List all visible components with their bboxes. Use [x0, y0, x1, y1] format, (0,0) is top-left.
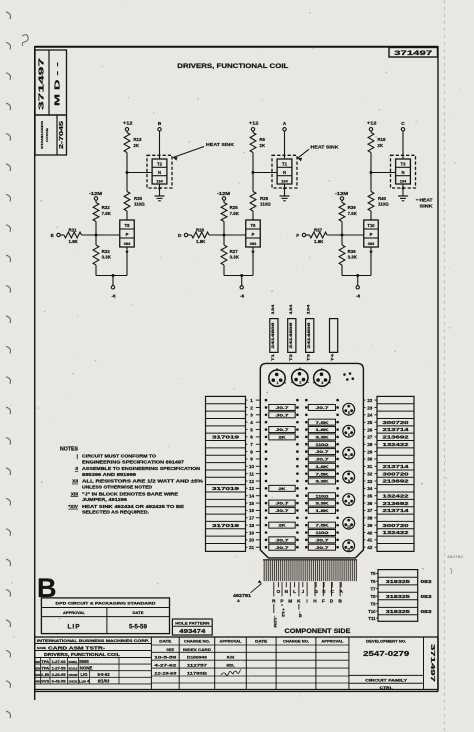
svg-text:K: K: [297, 598, 301, 604]
bottom rail (C driver): [342, 275, 371, 277]
svg-text:N: N: [401, 170, 404, 175]
drawing number box 371497: [389, 48, 438, 58]
svg-text:SCALE: SCALE: [69, 666, 78, 670]
svg-text:2-7045: 2-7045: [59, 121, 65, 149]
svg-text:083: 083: [250, 241, 257, 246]
svg-text:CHANGE NO.: CHANGE NO.: [283, 639, 309, 643]
svg-text:SMS: SMS: [79, 659, 89, 664]
notes: [60, 447, 203, 515]
svg-text:28: 28: [367, 442, 373, 447]
svg-text:29: 29: [367, 449, 373, 454]
svg-text:-6: -6: [111, 293, 116, 298]
emitter wire of T6 to rail: [251, 247, 254, 276]
svg-text:DRAW: DRAW: [69, 673, 78, 677]
svg-text:SEE: SEE: [166, 648, 174, 652]
svg-text:27: 27: [367, 435, 373, 440]
wire R25 to base node: [223, 222, 225, 236]
svg-text:1: 1: [277, 381, 279, 385]
svg-text:R31: R31: [68, 227, 77, 232]
package T4 (2414806 power transistor): [330, 319, 338, 361]
emitter wire + ground (T3): [398, 184, 408, 201]
emitter wire + ground (T2): [155, 184, 165, 201]
resistor R37 1.8K (input): [306, 227, 327, 243]
svg-text:DATE: DATE: [159, 639, 172, 643]
svg-text:112757: 112757: [187, 664, 207, 668]
node junction (B driver): [126, 171, 129, 174]
card hole pads (right column): [305, 399, 339, 549]
net +12 on contact P: [281, 604, 285, 617]
transistor T5 position: [343, 403, 355, 415]
svg-text:1.8K: 1.8K: [314, 239, 324, 244]
contact P: [280, 582, 284, 604]
svg-text:300720: 300720: [383, 471, 410, 476]
svg-text:1-27-59: 1-27-59: [52, 666, 66, 670]
resistor 7.5K (right col row 11): [308, 471, 335, 477]
svg-text:HEAT SINK 492434 OR 492435 TO: HEAT SINK 492434 OR 492435 TO BE: [82, 504, 184, 509]
svg-text:40: 40: [367, 530, 373, 535]
svg-text:3.3K: 3.3K: [348, 255, 358, 260]
svg-text:134: 134: [400, 178, 407, 183]
svg-text:8: 8: [250, 449, 253, 454]
svg-text:INTERNATIONAL BUSINESS MACHINE: INTERNATIONAL BUSINESS MACHINES CORP.: [37, 639, 149, 643]
svg-text:31: 31: [367, 464, 373, 469]
svg-text:A: A: [283, 121, 287, 127]
resistor R13 2K: [124, 133, 142, 153]
svg-text:9: 9: [250, 457, 253, 462]
edge connector contacts: [263, 560, 357, 582]
node junction (C driver): [370, 171, 373, 174]
transistor socket 3: [313, 368, 331, 386]
left terminal strip (pins 1-21): [206, 396, 246, 551]
svg-text:22: 22: [367, 398, 373, 403]
svg-text:P: P: [126, 232, 129, 237]
svg-text:18: 18: [249, 523, 255, 528]
resistor R40 110&#937;: [368, 192, 389, 212]
svg-text:2: 2: [299, 381, 301, 385]
svg-text:O: O: [277, 589, 281, 595]
svg-text:33: 33: [367, 479, 373, 484]
svg-text:213714: 213714: [383, 464, 410, 469]
svg-text:APPROVAL: APPROVAL: [63, 611, 86, 615]
svg-text:1.8K: 1.8K: [316, 427, 329, 432]
resistor 3.3K (right col row 12): [308, 478, 335, 484]
svg-text:132422: 132422: [383, 442, 410, 447]
terminal +12 (C driver): [367, 121, 377, 131]
svg-text:R32: R32: [102, 205, 111, 210]
svg-text:F: F: [322, 598, 325, 604]
svg-text:NOTES: NOTES: [60, 447, 79, 453]
transistor T7 position: [343, 447, 355, 459]
svg-text:R36: R36: [348, 249, 357, 254]
svg-text:41: 41: [367, 538, 373, 543]
emitter wire of T10 to rail: [369, 247, 372, 276]
svg-text:APPROVAL: APPROVAL: [220, 639, 242, 643]
terminal -12M (A driver): [217, 191, 230, 200]
wire R26 to T6 base: [209, 234, 246, 236]
wire -12M to R39: [341, 200, 343, 202]
svg-text:DETAIL: DETAIL: [35, 666, 41, 670]
resistor R6 2K: [250, 133, 266, 153]
svg-text:34: 34: [367, 486, 373, 491]
svg-text:2K: 2K: [133, 143, 139, 148]
svg-text:R28: R28: [260, 196, 269, 201]
wire node to transistor T1 base: [253, 172, 277, 174]
svg-text:30: 30: [367, 457, 373, 462]
standards code block: [35, 50, 67, 155]
svg-text:J0.7: J0.7: [316, 449, 330, 454]
svg-text:11: 11: [347, 548, 351, 552]
svg-text:M: M: [288, 598, 292, 604]
wire node to transistor T2 base: [127, 172, 152, 174]
svg-text:ALL RESISTORS ARE 1/2 WATT AND: ALL RESISTORS ARE 1/2 WATT AND ±5%: [82, 479, 203, 484]
heat sink label (T2): [173, 142, 235, 161]
resistor R35 110&#937;: [124, 192, 145, 212]
jumper J0.7 (left col row 20): [269, 537, 295, 543]
contact C: [330, 582, 334, 595]
svg-text:R39: R39: [348, 205, 357, 210]
terminal +12 (B driver): [123, 121, 133, 131]
svg-text:7.5K: 7.5K: [230, 211, 240, 216]
wire C to T3 collector: [402, 131, 404, 159]
base node junction (C driver): [341, 234, 344, 237]
svg-text:3.3K: 3.3K: [316, 434, 329, 439]
svg-text:1-27-60: 1-27-60: [52, 660, 66, 664]
svg-text:8: 8: [348, 479, 350, 483]
svg-text:T8: T8: [125, 223, 131, 228]
wire R33 to rail: [95, 265, 97, 276]
svg-text:213692: 213692: [383, 479, 410, 484]
svg-text:35: 35: [367, 494, 373, 499]
svg-text:CARD ASM TSTR-: CARD ASM TSTR-: [48, 645, 106, 650]
svg-text:DPD CIRCUIT & PACKAGING STANDA: DPD CIRCUIT & PACKAGING STANDARD: [56, 602, 157, 606]
contact A: [339, 582, 343, 595]
jumper J0.7 (right col row 9): [308, 456, 335, 462]
resistor R32 7.5K: [93, 203, 112, 222]
jumper J0.7 (left col row 16): [269, 507, 295, 513]
jumper J0.7 (left col row 3): [269, 412, 295, 418]
contact J: [301, 582, 304, 595]
svg-text:T10: T10: [367, 223, 375, 228]
svg-text:3: 3: [250, 413, 253, 418]
svg-text:CIRCUIT FAMILY: CIRCUIT FAMILY: [365, 677, 407, 682]
svg-text:134: 134: [307, 303, 311, 314]
jumper J0.7 (right col row 20): [308, 537, 335, 543]
svg-text:5-5-59: 5-5-59: [129, 624, 147, 631]
svg-text:9: 9: [348, 502, 350, 506]
wire +12 to R13: [126, 131, 128, 133]
resistor 1.8K (right col row 16): [308, 507, 335, 513]
package T3 (2414806 power transistor): [306, 303, 314, 361]
svg-text:TPA: TPA: [41, 660, 50, 664]
svg-text:R25: R25: [230, 205, 239, 210]
emitter wire + ground (T1): [280, 184, 290, 201]
svg-text:300720: 300720: [383, 523, 410, 528]
svg-text:213714: 213714: [383, 508, 410, 513]
svg-text:213714: 213714: [383, 427, 410, 432]
jumper J0.7 (left col row 2): [269, 404, 295, 410]
wire B to T2 collector: [159, 131, 161, 159]
svg-text:7: 7: [250, 442, 253, 447]
contact O: [277, 582, 281, 595]
svg-text:J0.7: J0.7: [316, 457, 330, 462]
contact D: [330, 582, 334, 604]
svg-text:TPA: TPA: [41, 666, 50, 670]
contact R: [272, 582, 276, 604]
svg-text:T9: T9: [370, 601, 376, 606]
svg-text:493474: 493474: [179, 629, 205, 635]
resistor 1.8K (right col row 10): [308, 463, 335, 469]
svg-text:T11: T11: [368, 616, 376, 621]
resistor 1.8K (right col row 5): [308, 427, 335, 433]
svg-text:RJH: RJH: [227, 656, 235, 660]
svg-text:COMPONENT SIDE: COMPONENT SIDE: [285, 628, 352, 635]
svg-text:T10: T10: [368, 609, 376, 614]
svg-text:F: F: [296, 233, 299, 239]
terminal F (input): [296, 233, 305, 239]
svg-text:HEAT SINK: HEAT SINK: [206, 142, 235, 147]
svg-text:J0.7: J0.7: [316, 545, 330, 550]
bottom rail (A driver): [224, 275, 253, 277]
jumper J0.7 (right col row 8): [308, 449, 335, 455]
wire node to transistor T3 base: [371, 172, 396, 174]
jumper J0.7 (left col row 15): [269, 500, 295, 506]
svg-text:CHECK: CHECK: [35, 673, 40, 677]
svg-text:-12M: -12M: [217, 191, 230, 196]
transistor T6 (P 083): [246, 220, 261, 247]
transistor T9 position: [343, 494, 355, 506]
svg-text:P: P: [252, 232, 255, 237]
contact I: [306, 582, 308, 604]
heat sink label (T1): [298, 145, 340, 162]
svg-text:J0.7: J0.7: [276, 545, 290, 550]
contact B: [338, 582, 342, 604]
wire R37 to T10 base: [327, 234, 364, 236]
svg-text:37: 37: [367, 508, 373, 513]
socket position 4 (unused pads): [343, 372, 354, 381]
svg-text:21: 21: [249, 545, 255, 550]
bottom rail (B driver): [96, 275, 127, 277]
svg-text:2: 2: [250, 405, 253, 410]
transistor T6 position: [343, 425, 355, 437]
wire R39 to base node: [341, 222, 343, 236]
svg-text:CODE: CODE: [45, 128, 49, 142]
svg-text:T2: T2: [157, 162, 163, 167]
resistor 2K (left col row 18): [269, 522, 295, 528]
svg-text:2547-0279: 2547-0279: [363, 649, 409, 658]
svg-text:N: N: [285, 589, 289, 595]
transistor T2 (N 134): [152, 159, 167, 184]
svg-text:MDL: MDL: [226, 664, 235, 668]
svg-text:3.3K: 3.3K: [316, 501, 329, 506]
DPD standards approval box: [41, 598, 169, 634]
svg-text:+12: +12: [249, 121, 259, 126]
svg-text:ASSEMBLE TO ENGINEERING SPECIF: ASSEMBLE TO ENGINEERING SPECIFICATION: [82, 466, 200, 471]
svg-text:D: D: [178, 233, 182, 239]
svg-text:J0.7: J0.7: [276, 412, 290, 417]
wire R35 to T8: [126, 211, 128, 220]
svg-text:J0.7: J0.7: [276, 537, 290, 542]
svg-text:T8: T8: [370, 594, 376, 599]
svg-text:SINK: SINK: [420, 203, 434, 208]
svg-text:T6: T6: [251, 223, 257, 228]
svg-text:D106943: D106943: [187, 656, 207, 660]
svg-text:N: N: [283, 170, 286, 175]
svg-text:R40: R40: [378, 196, 387, 201]
transistor T8 (P 083): [120, 220, 135, 247]
svg-text:3.3K: 3.3K: [102, 255, 112, 260]
svg-text:134: 134: [156, 178, 163, 183]
svg-text:MODEL: MODEL: [69, 660, 78, 664]
svg-text:1: 1: [250, 398, 253, 403]
resistor 3.3K (right col row 15): [308, 500, 335, 506]
svg-text:J0.7: J0.7: [316, 537, 330, 542]
transistor T8 position: [343, 471, 355, 483]
svg-text:2414806: 2414806: [271, 322, 275, 348]
svg-text:132422: 132422: [383, 493, 410, 498]
svg-text:17: 17: [249, 516, 255, 521]
svg-text:-6: -6: [240, 293, 245, 298]
svg-text:9/1/63: 9/1/63: [98, 679, 110, 684]
svg-text:JUMPER, 491296: JUMPER, 491296: [82, 497, 128, 502]
svg-text:6: 6: [348, 433, 350, 437]
svg-text:110Ω: 110Ω: [260, 201, 271, 206]
svg-text:12: 12: [249, 479, 255, 484]
svg-text:B: B: [158, 121, 162, 127]
resistor 110&#937; (right col row 14): [308, 493, 335, 499]
svg-text:J0.7: J0.7: [276, 508, 290, 513]
resistor 110&#937; (right col row 7): [308, 441, 335, 447]
transistor T1 (N 134): [277, 159, 292, 184]
svg-text:492781: 492781: [233, 593, 252, 598]
svg-text:2K: 2K: [259, 143, 265, 148]
svg-text:XIII: XIII: [71, 491, 79, 497]
svg-text:38: 38: [367, 516, 373, 521]
rail junction (B driver): [112, 274, 115, 277]
svg-text:1.8K: 1.8K: [69, 239, 79, 244]
heat sink dashed outline (T1): [272, 155, 297, 188]
wire node to R28: [252, 173, 254, 192]
terminal -6: [111, 276, 116, 299]
connector part number 492781: [233, 580, 262, 603]
resistor R27 3.3K: [221, 235, 240, 265]
svg-text:L: L: [293, 589, 296, 595]
wire node to R40: [370, 173, 372, 192]
svg-text:371497: 371497: [37, 58, 46, 110]
svg-text:25: 25: [367, 420, 373, 425]
svg-text:STANDARDS: STANDARDS: [40, 121, 44, 149]
emitter wire of T8 to rail: [125, 247, 128, 276]
wire R40 to T10: [370, 211, 372, 220]
jumper J0.7 (left col row 5): [269, 427, 295, 433]
terminal -6: [356, 276, 361, 299]
svg-text:213692: 213692: [383, 501, 410, 506]
net -6 on contact K: [298, 604, 302, 618]
svg-text:-12M: -12M: [273, 616, 277, 628]
node junction (A driver): [252, 171, 255, 174]
svg-text:-6: -6: [356, 293, 361, 298]
rail junction (C driver): [356, 274, 359, 277]
parts table T5-T11 (318325): [368, 570, 432, 622]
svg-text:134: 134: [281, 178, 288, 183]
wire node to R35: [126, 173, 128, 192]
svg-text:CHANGE NO.: CHANGE NO.: [184, 639, 210, 643]
wire R6 to node: [252, 153, 254, 173]
contact K: [297, 582, 301, 604]
heat sink dashed outline (T2): [147, 155, 172, 188]
resistor 2K (left col row 6): [269, 434, 295, 440]
svg-text:083: 083: [421, 609, 433, 614]
svg-text:7.5K: 7.5K: [348, 211, 358, 216]
svg-text:5: 5: [250, 427, 253, 432]
resistor 2K (left col row 13): [269, 485, 295, 491]
base node junction (A driver): [223, 234, 226, 237]
svg-text:P: P: [370, 232, 373, 237]
contact M: [288, 582, 292, 604]
svg-text:R37: R37: [314, 227, 323, 232]
terminal -12M (C driver): [335, 191, 348, 200]
svg-text:371497: 371497: [429, 644, 435, 682]
svg-text:1.8K: 1.8K: [316, 508, 329, 513]
svg-text:895396 AND 891999: 895396 AND 891999: [82, 472, 137, 477]
svg-text:+12: +12: [123, 121, 133, 126]
svg-text:-12M: -12M: [89, 191, 102, 196]
svg-text:SVS: SVS: [41, 680, 50, 684]
terminal B (output): [158, 121, 162, 131]
resistor R33 3.3K: [93, 235, 112, 265]
svg-text:10: 10: [347, 525, 351, 529]
svg-text:NONE: NONE: [80, 665, 93, 670]
svg-text:7.5K: 7.5K: [316, 523, 329, 528]
svg-text:-6: -6: [298, 612, 302, 618]
jumper J0.7 (right col row 2): [308, 404, 335, 410]
wire -12M to R25: [223, 200, 225, 202]
wire R27 to rail: [223, 265, 225, 276]
wire R31 to T8 base: [82, 234, 120, 236]
svg-text:T1: T1: [282, 162, 288, 167]
contact G: [314, 582, 318, 595]
wire A to T1 collector: [284, 131, 286, 159]
contact E: [322, 582, 326, 595]
wire +12 to R6: [252, 131, 254, 133]
svg-text:317019: 317019: [212, 486, 240, 491]
resistor R28 110&#937;: [250, 192, 271, 212]
svg-text:M D - -: M D - -: [55, 61, 62, 106]
terminal D (input): [178, 233, 188, 239]
svg-text:134: 134: [289, 303, 293, 314]
resistor 110&#937; (right col row 19): [308, 529, 335, 535]
svg-text:INDEX CARD: INDEX CARD: [183, 648, 211, 652]
svg-text:11: 11: [249, 471, 254, 476]
resistor 3.3K (right col row 6): [308, 434, 335, 440]
svg-text:J0.7: J0.7: [276, 427, 290, 432]
transistor T10 (P 083): [364, 220, 379, 247]
svg-text:J0.7: J0.7: [316, 405, 330, 410]
svg-text:XII: XII: [72, 479, 79, 485]
svg-text:T3: T3: [401, 162, 407, 167]
svg-text:2K: 2K: [279, 434, 286, 439]
svg-text:+12: +12: [367, 121, 377, 126]
svg-text:"J" IN BLOCK DENOTES BARE WIRE: "J" IN BLOCK DENOTES BARE WIRE: [82, 491, 178, 496]
svg-text:HEAT: HEAT: [420, 197, 433, 202]
svg-text:318325: 318325: [386, 579, 411, 584]
base node junction (B driver): [95, 234, 98, 237]
svg-text:15: 15: [249, 501, 255, 506]
resistor 7.5K (right col row 4): [308, 419, 335, 425]
svg-text:1.8K: 1.8K: [316, 464, 329, 469]
svg-text:D: D: [330, 598, 334, 604]
svg-text:ENGINEERING SPECIFICATION 8914: ENGINEERING SPECIFICATION 891497: [82, 459, 185, 464]
svg-text:HEAT SINK: HEAT SINK: [311, 145, 340, 150]
